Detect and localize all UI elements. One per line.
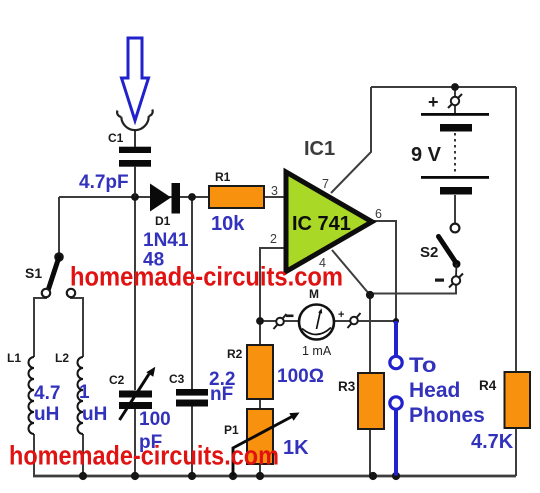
svg-text:Head: Head bbox=[409, 379, 460, 402]
svg-text:2: 2 bbox=[270, 232, 277, 246]
svg-text:1K: 1K bbox=[283, 437, 309, 459]
svg-text:L1: L1 bbox=[7, 351, 21, 365]
diode D1 bbox=[150, 184, 171, 212]
resistor R1 bbox=[209, 186, 264, 208]
svg-text:R4: R4 bbox=[479, 378, 497, 393]
switch S2 bbox=[451, 224, 460, 233]
svg-text:9 V: 9 V bbox=[411, 144, 442, 166]
svg-text:100Ω: 100Ω bbox=[277, 366, 324, 387]
node rail headphone bbox=[392, 472, 400, 480]
resistor R2 bbox=[247, 345, 273, 399]
svg-text:IC1: IC1 bbox=[304, 138, 335, 160]
svg-text:1: 1 bbox=[79, 382, 90, 403]
wire left branch down to S1 bbox=[58, 197, 60, 257]
svg-text:To: To bbox=[409, 354, 437, 377]
svg-text:1N41: 1N41 bbox=[143, 230, 189, 251]
svg-text:+: + bbox=[428, 92, 439, 112]
svg-text:R2: R2 bbox=[227, 347, 243, 361]
resistor R3 bbox=[358, 373, 384, 429]
svg-text:4.7K: 4.7K bbox=[471, 431, 514, 453]
node C1 junction bbox=[131, 193, 139, 201]
wire pin4 diagonal bbox=[332, 250, 370, 295]
node pin4 junction bbox=[366, 291, 374, 299]
svg-text:100: 100 bbox=[139, 409, 171, 430]
battery 9V bbox=[421, 113, 489, 116]
wire S1 throw1 to L1 bbox=[34, 297, 46, 358]
antenna arrow (blue) bbox=[122, 38, 149, 121]
node rail P1 bottom bbox=[256, 472, 264, 480]
svg-text:R3: R3 bbox=[338, 379, 356, 394]
wire meter row bbox=[260, 320, 396, 322]
svg-text:4.7: 4.7 bbox=[34, 383, 60, 404]
svg-text:uH: uH bbox=[82, 404, 107, 425]
wire input row bbox=[59, 196, 286, 198]
potentiometer P1 bbox=[247, 409, 273, 464]
svg-text:nF: nF bbox=[210, 384, 233, 405]
inductor L1 bbox=[29, 357, 34, 434]
wire S2 bottom to pin4 junction bbox=[370, 285, 456, 295]
svg-text:IC 741: IC 741 bbox=[292, 213, 351, 235]
capacitor C1 bbox=[119, 147, 151, 153]
node D1 output junction bbox=[188, 193, 196, 201]
inductor L2 bbox=[78, 357, 83, 434]
svg-text:P1: P1 bbox=[224, 423, 239, 437]
svg-text:homemade-circuits.com: homemade-circuits.com bbox=[9, 441, 279, 471]
svg-text:1 mA: 1 mA bbox=[302, 344, 332, 358]
resistor R4 bbox=[505, 372, 531, 428]
wire C3 column bbox=[191, 197, 193, 476]
svg-text:C3: C3 bbox=[169, 372, 185, 386]
svg-text:6: 6 bbox=[375, 207, 382, 221]
svg-text:L2: L2 bbox=[55, 351, 69, 365]
svg-text:C2: C2 bbox=[109, 373, 125, 387]
meter left terminal bbox=[274, 314, 287, 329]
node S1 pole bbox=[54, 252, 64, 262]
capacitor C3 bbox=[176, 389, 208, 396]
svg-text:S1: S1 bbox=[25, 265, 42, 281]
svg-text:Phones: Phones bbox=[409, 404, 485, 427]
wire L1 bottom to rail bbox=[33, 434, 35, 476]
wire bottom rail bbox=[33, 475, 516, 478]
node rail R3 bbox=[369, 472, 377, 480]
wire pin2 loop bbox=[260, 248, 284, 321]
wire C2 column bbox=[134, 197, 136, 476]
node battery top junction bbox=[451, 83, 459, 91]
svg-text:homemade-circuits.com: homemade-circuits.com bbox=[70, 262, 343, 292]
svg-text:3: 3 bbox=[271, 184, 278, 198]
meter M bbox=[299, 305, 334, 340]
node rail C3 bbox=[188, 472, 196, 480]
battery plus terminal bbox=[448, 94, 462, 108]
headphone jack bbox=[394, 321, 398, 476]
svg-text:D1: D1 bbox=[155, 214, 171, 228]
node rail C2 bbox=[131, 472, 139, 480]
node headphone top junction bbox=[393, 318, 399, 324]
svg-text:+: + bbox=[338, 309, 344, 321]
svg-text:R1: R1 bbox=[215, 170, 231, 184]
meter right terminal bbox=[348, 313, 361, 328]
wire battery column bbox=[454, 87, 456, 223]
svg-text:10k: 10k bbox=[211, 213, 245, 235]
wire S1 throw2 to L2 bbox=[71, 297, 83, 358]
svg-text:7: 7 bbox=[322, 177, 329, 191]
capacitor C2 variable bbox=[119, 391, 152, 398]
wire R2 P1 column bbox=[259, 321, 261, 476]
antenna bbox=[117, 110, 153, 131]
svg-text:C1: C1 bbox=[108, 131, 124, 145]
node meter left junction bbox=[256, 317, 264, 325]
wire L2 bottom to rail bbox=[82, 434, 84, 476]
wire R3 column bbox=[369, 295, 371, 476]
svg-text:S2: S2 bbox=[420, 244, 438, 261]
op-amp IC1 bbox=[286, 172, 372, 272]
svg-text:4.7pF: 4.7pF bbox=[79, 172, 129, 193]
wire top rail bbox=[371, 86, 516, 88]
wire pin6 output bbox=[372, 221, 396, 321]
svg-text:uH: uH bbox=[34, 404, 59, 425]
node rail L2 bbox=[79, 472, 87, 480]
node rail P1 wiper bbox=[229, 472, 237, 480]
wire right rail bbox=[515, 87, 517, 476]
wire pin7 to top rail bbox=[331, 87, 371, 193]
switch S1 bbox=[48, 257, 59, 291]
